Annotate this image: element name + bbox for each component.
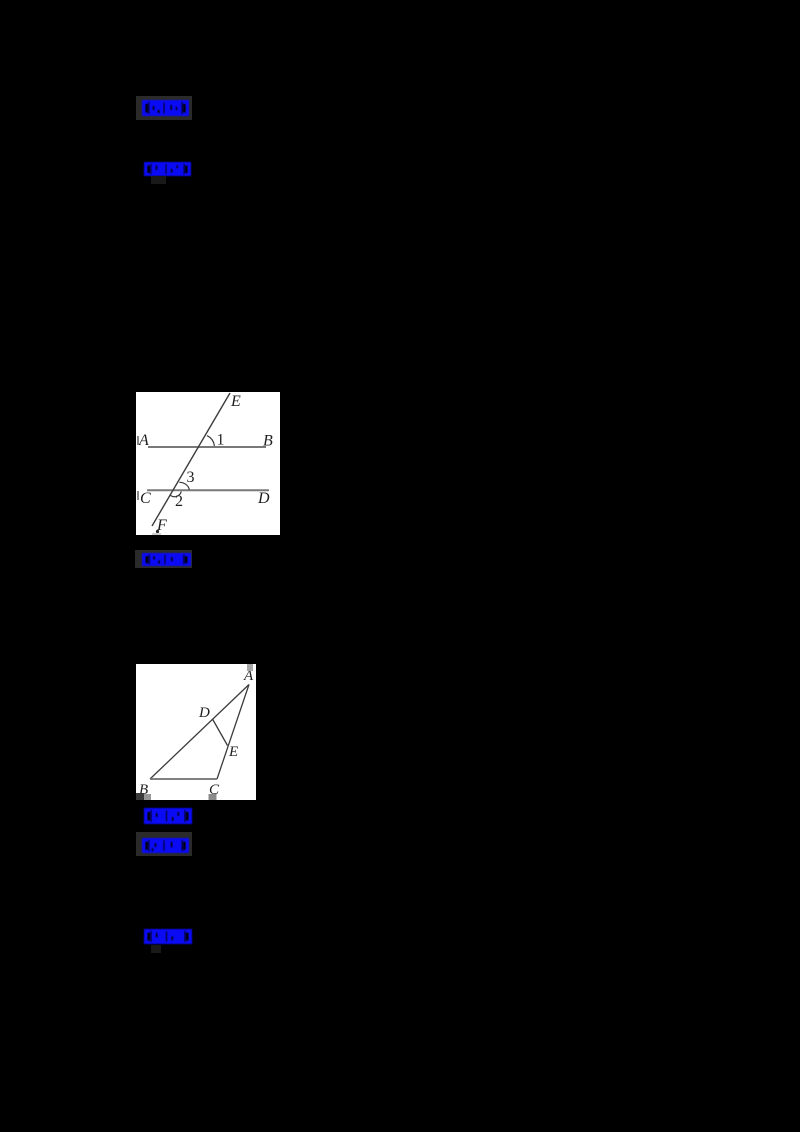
label highlight box 1: [136, 96, 192, 120]
label highlight box 3: [135, 550, 192, 568]
svg-text:C: C: [140, 490, 151, 507]
svg-text:A: A: [138, 432, 149, 449]
wire line AB: [148, 446, 266, 448]
blue label 6 (answer): [144, 929, 192, 944]
blue label 3 (comment): [142, 553, 191, 566]
blue label 5 (analysis): [142, 838, 189, 853]
edge ticks: [137, 436, 139, 445]
blue label 4 (key points): [144, 808, 192, 824]
svg-text:E: E: [230, 393, 241, 410]
faint mark under label 2: [151, 176, 166, 184]
blue label 2 (answer): [144, 162, 191, 176]
wire D to E: [213, 719, 228, 746]
faint mark under label 6: [151, 945, 161, 953]
wire line CD: [147, 489, 269, 491]
label highlight box 5: [136, 832, 192, 856]
wire B to C: [150, 778, 217, 780]
svg-text:D: D: [198, 705, 210, 721]
svg-text:E: E: [228, 744, 238, 760]
gray artifact bottom-left dark: [136, 793, 144, 800]
svg-text:2: 2: [175, 493, 183, 510]
gray artifact below C: [209, 794, 217, 800]
gray artifact bottom-left light: [144, 794, 151, 800]
wire transversal EF: [152, 393, 230, 526]
angle 2 arc: [170, 492, 182, 497]
diagram 1: parallel lines cut by transversal: [136, 392, 280, 535]
wire B to A: [150, 685, 249, 780]
svg-text:1: 1: [217, 432, 225, 449]
gray artifact top-right: [247, 664, 253, 671]
wire C to A: [217, 685, 249, 780]
angle 3 arc: [179, 482, 189, 489]
angle 1 arc: [207, 436, 214, 446]
svg-text:B: B: [263, 433, 273, 450]
node labels: [138, 393, 273, 534]
dot near F: [156, 530, 159, 533]
node labels: [139, 668, 254, 798]
svg-text:D: D: [257, 490, 270, 507]
diagram 2: triangle ABC with cevians: [136, 664, 256, 800]
svg-text:3: 3: [187, 469, 195, 486]
blue label 1 (analysis): [142, 100, 189, 116]
